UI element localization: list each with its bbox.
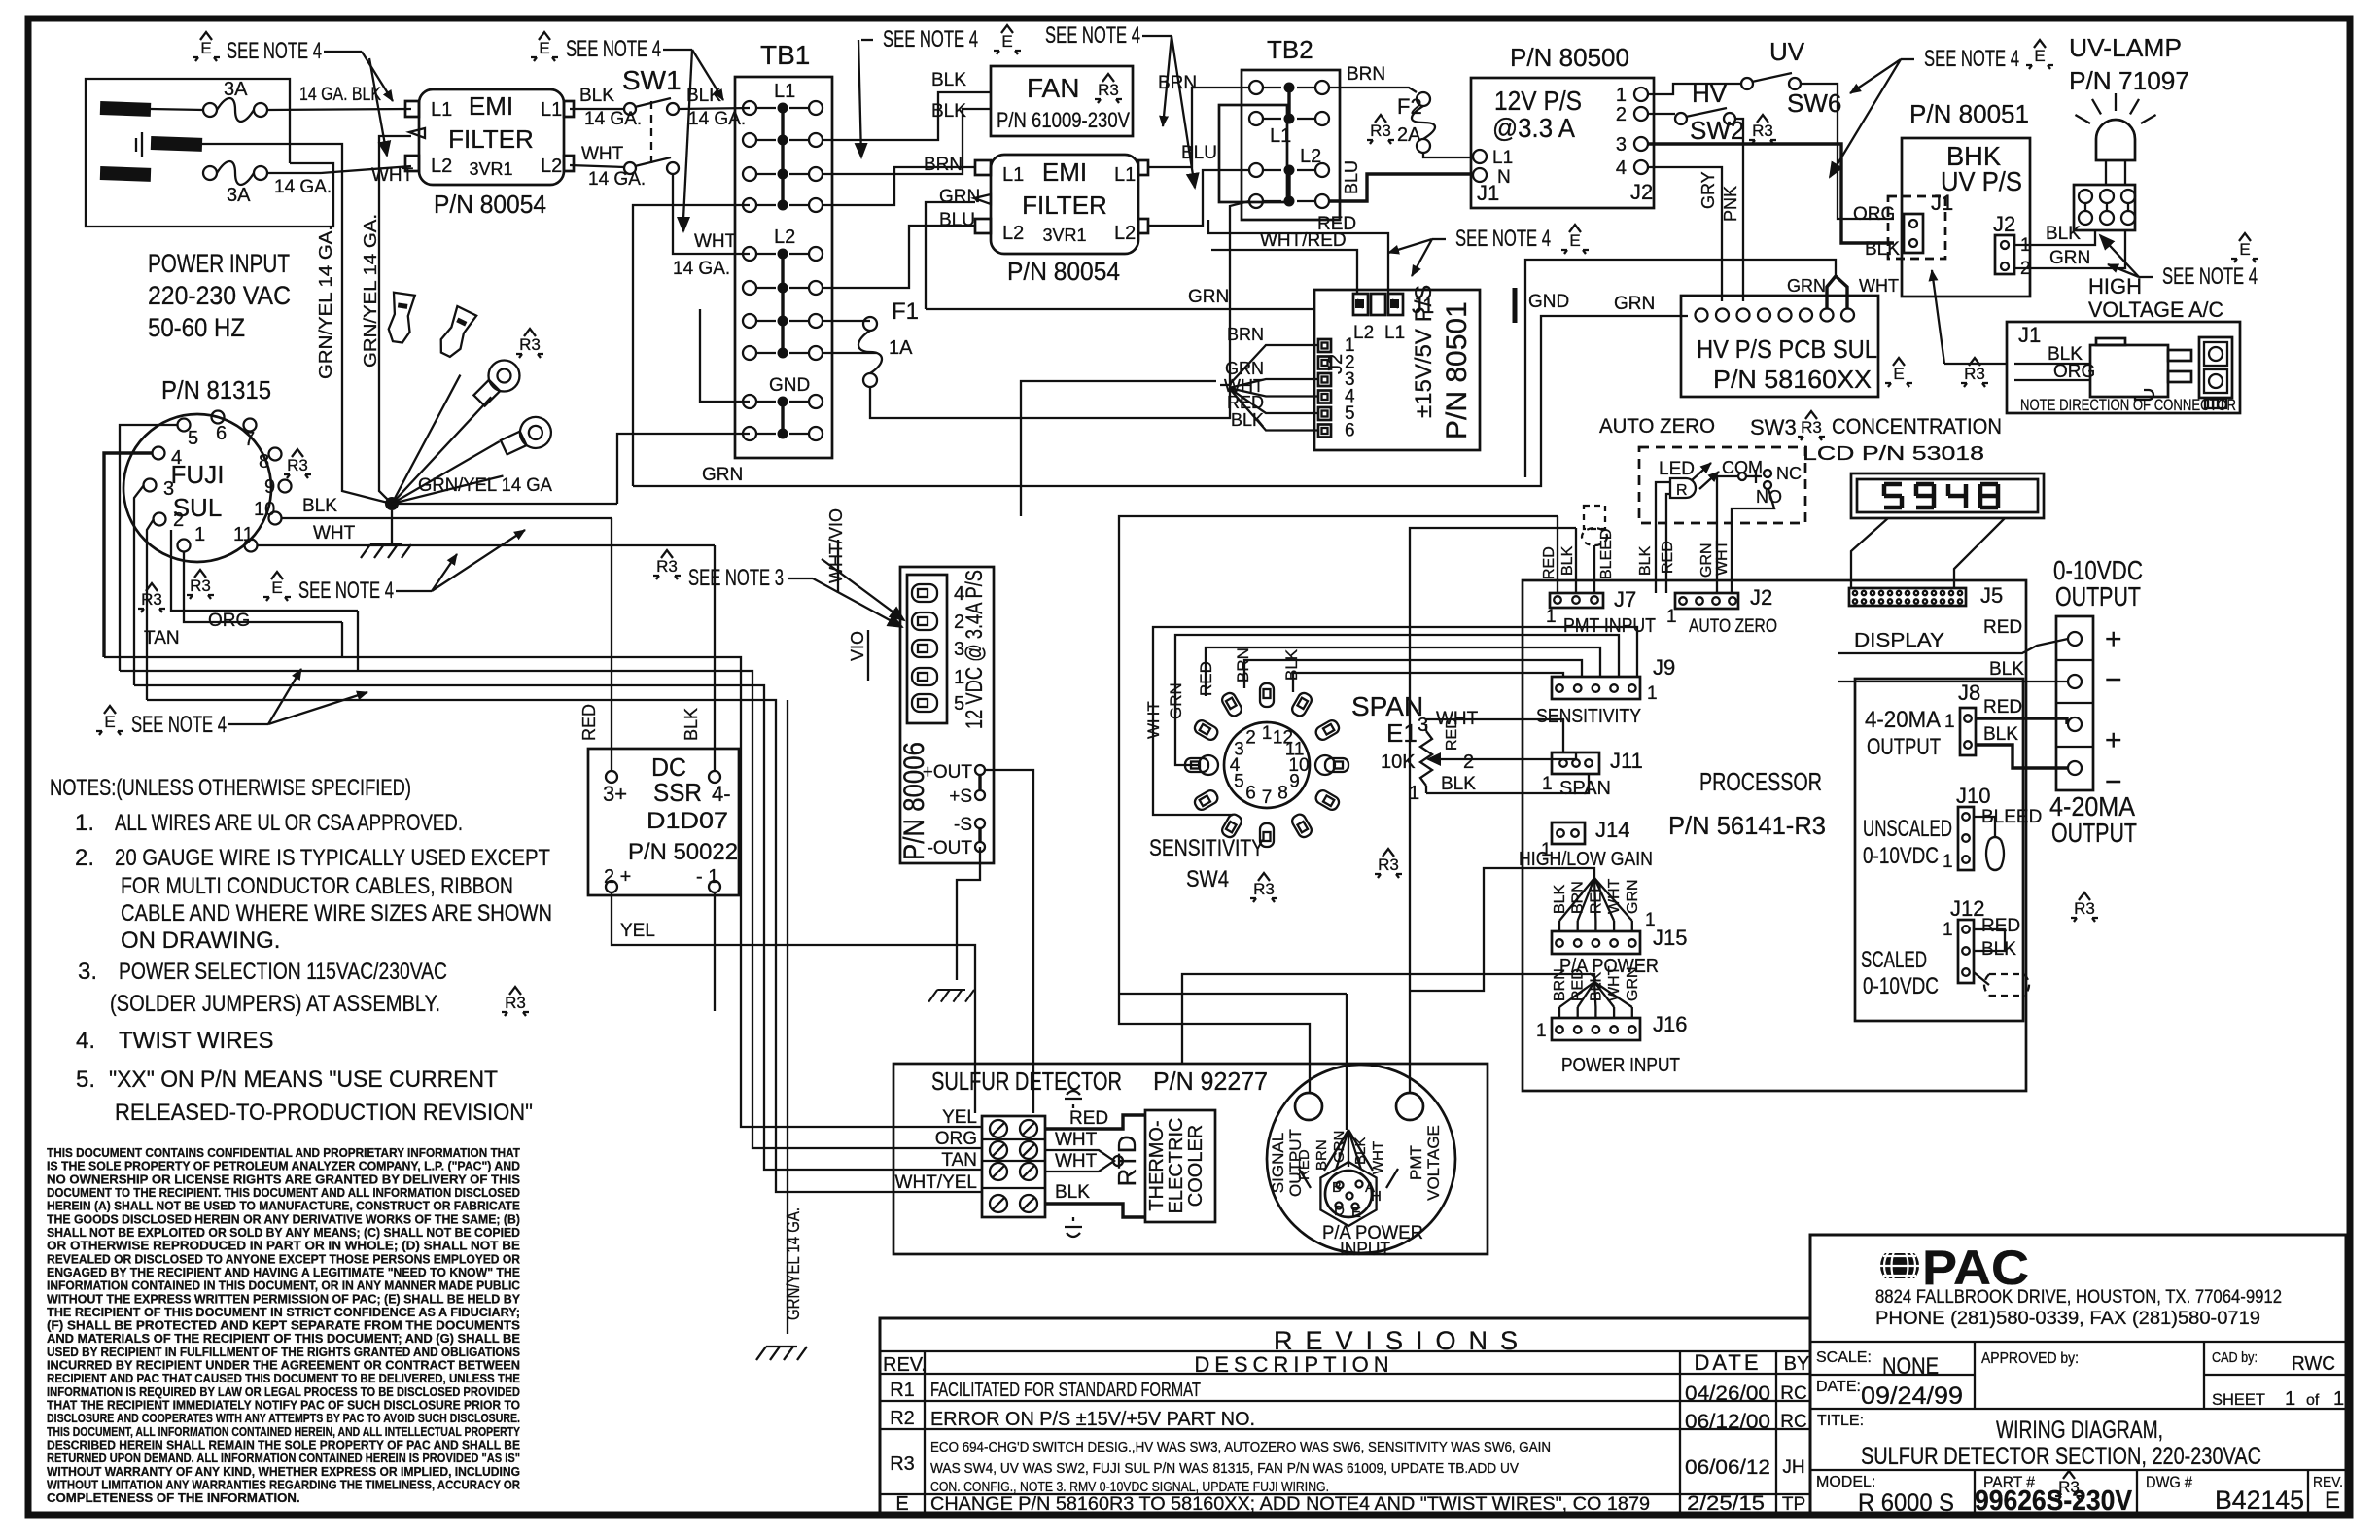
svg-text:E: E (200, 39, 211, 57)
svg-text:14 GA.: 14 GA. (584, 109, 642, 129)
svg-text:WIRING DIAGRAM,: WIRING DIAGRAM, (1996, 1417, 2163, 1444)
svg-text:SEE NOTE 4: SEE NOTE 4 (227, 38, 322, 64)
svg-text:6: 6 (1245, 784, 1256, 804)
svg-text:J2: J2 (1750, 585, 1772, 610)
svg-text:12 VDC @ 3.4A P/S: 12 VDC @ 3.4A P/S (962, 570, 988, 729)
svg-text:+: + (2105, 623, 2122, 655)
svg-text:GRN: GRN (1167, 682, 1185, 719)
svg-text:J1: J1 (1931, 191, 1953, 215)
svg-text:−: − (2105, 664, 2122, 696)
svg-text:FILTER: FILTER (448, 124, 534, 154)
svg-text:P/N 58160XX: P/N 58160XX (1713, 365, 1872, 394)
svg-text:J15: J15 (1653, 926, 1687, 950)
svg-text:7: 7 (244, 429, 255, 450)
svg-text:-S: -S (954, 815, 972, 835)
svg-text:L2: L2 (431, 156, 452, 177)
svg-text:J14: J14 (1595, 818, 1629, 842)
svg-text:TWIST WIRES: TWIST WIRES (119, 1028, 274, 1054)
svg-text:WHT/VIO: WHT/VIO (826, 508, 846, 583)
svg-text:EMI: EMI (469, 91, 513, 121)
svg-text:COMPLETENESS OF THE INFORMATIO: COMPLETENESS OF THE INFORMATION. (47, 1490, 300, 1505)
svg-text:RED: RED (1541, 546, 1557, 579)
svg-text:12V P/S: 12V P/S (1494, 86, 1582, 116)
svg-text:4.: 4. (76, 1028, 95, 1054)
svg-text:WHT: WHT (1055, 1151, 1098, 1172)
svg-text:FACILITATED FOR STANDARD FORMA: FACILITATED FOR STANDARD FORMAT (930, 1380, 1201, 1401)
svg-text:±15V/5V P/S: ±15V/5V P/S (1411, 285, 1437, 418)
svg-text:09/24/99: 09/24/99 (1861, 1382, 1963, 1410)
svg-text:SENSITIVITY: SENSITIVITY (1536, 706, 1641, 727)
svg-text:BLK: BLK (1231, 410, 1264, 430)
svg-text:GND: GND (1528, 292, 1569, 312)
svg-text:BLK: BLK (686, 86, 721, 106)
svg-text:11: 11 (233, 524, 254, 545)
svg-text:R 6000 S: R 6000 S (1858, 1489, 1954, 1517)
svg-text:UNSCALED: UNSCALED (1863, 816, 1952, 842)
svg-text:SEE NOTE 4: SEE NOTE 4 (1924, 46, 2019, 72)
svg-text:B42145: B42145 (2215, 1486, 2304, 1515)
svg-text:CONCENTRATION: CONCENTRATION (1832, 414, 2002, 438)
svg-text:J11: J11 (1610, 749, 1643, 773)
svg-text:1: 1 (194, 524, 205, 545)
svg-text:WHT: WHT (1370, 1141, 1386, 1174)
svg-text:+: + (2105, 724, 2122, 756)
svg-text:SEE NOTE 4: SEE NOTE 4 (566, 36, 661, 62)
svg-text:99626S-230V: 99626S-230V (1975, 1486, 2133, 1517)
svg-text:SW2: SW2 (1690, 116, 1744, 145)
svg-text:LCD P/N 53018: LCD P/N 53018 (1802, 443, 1984, 465)
svg-text:BLK: BLK (1989, 659, 2024, 680)
svg-text:3.: 3. (78, 959, 97, 985)
svg-text:PROCESSOR: PROCESSOR (1699, 767, 1822, 796)
svg-text:WHT: WHT (694, 231, 737, 252)
svg-text:220-230 VAC: 220-230 VAC (148, 281, 291, 310)
svg-text:P/N 61009-230V: P/N 61009-230V (997, 108, 1130, 132)
svg-text:1: 1 (1942, 852, 1953, 872)
svg-text:FUJI: FUJI (171, 460, 225, 489)
svg-text:REV.: REV. (883, 1354, 927, 1376)
svg-text:GRN: GRN (1331, 1131, 1347, 1163)
svg-text:RED: RED (1296, 1149, 1312, 1180)
svg-text:PNK: PNK (1721, 186, 1740, 222)
svg-text:OUTPUT: OUTPUT (2055, 581, 2141, 612)
svg-text:BLK: BLK (2046, 224, 2081, 244)
svg-text:OUTPUT: OUTPUT (1867, 734, 1941, 760)
svg-text:J10: J10 (1956, 784, 1990, 808)
svg-text:BLK: BLK (1441, 774, 1476, 794)
svg-text:50-60 HZ: 50-60 HZ (148, 313, 245, 342)
svg-text:INPUT: INPUT (1340, 1240, 1390, 1260)
svg-text:12: 12 (1273, 727, 1293, 748)
svg-text:HV: HV (1692, 79, 1728, 108)
svg-text:DISPLAY: DISPLAY (1854, 630, 1944, 651)
svg-text:TB2: TB2 (1267, 35, 1313, 64)
svg-text:R3: R3 (1801, 418, 1822, 437)
svg-text:CAD by:: CAD by: (2212, 1349, 2257, 1366)
svg-text:RC: RC (1780, 1412, 1806, 1432)
svg-text:ECO 694-CHG'D SWITCH DESIG.,HV: ECO 694-CHG'D SWITCH DESIG.,HV WAS SW3, … (930, 1439, 1551, 1455)
svg-text:R3: R3 (1370, 122, 1391, 140)
svg-text:YEL: YEL (620, 921, 655, 941)
svg-text:JH: JH (1782, 1457, 1804, 1478)
svg-text:P/N 80054: P/N 80054 (434, 190, 546, 219)
svg-text:SEE NOTE 3: SEE NOTE 3 (688, 565, 784, 591)
svg-text:R3: R3 (287, 456, 308, 474)
svg-text:"XX" ON P/N MEANS "USE CURRENT: "XX" ON P/N MEANS "USE CURRENT (109, 1067, 498, 1093)
svg-text:BLK: BLK (1282, 648, 1301, 681)
svg-text:SW3: SW3 (1750, 415, 1797, 439)
svg-text:4-: 4- (712, 782, 731, 806)
svg-text:SCALED: SCALED (1861, 947, 1927, 973)
svg-text:1.: 1. (75, 810, 94, 836)
svg-text:SW1: SW1 (622, 65, 682, 95)
svg-text:GRN: GRN (702, 465, 743, 485)
svg-text:BLK: BLK (1865, 239, 1900, 260)
svg-text:10K: 10K (1381, 752, 1416, 773)
svg-text:BLU: BLU (1181, 143, 1217, 163)
svg-text:GRY: GRY (1698, 171, 1718, 209)
svg-text:SEE NOTE 4: SEE NOTE 4 (131, 712, 227, 738)
svg-text:1: 1 (1542, 774, 1553, 794)
svg-text:NC: NC (1776, 464, 1802, 483)
svg-text:3A: 3A (224, 79, 248, 100)
svg-text:SPAN: SPAN (1351, 691, 1423, 721)
svg-text:P/N 80500: P/N 80500 (1510, 43, 1629, 72)
svg-text:GRN: GRN (1625, 879, 1641, 914)
svg-text:2/25/15: 2/25/15 (1687, 1492, 1765, 1515)
svg-text:7: 7 (1262, 787, 1273, 808)
svg-text:LED: LED (1659, 459, 1695, 479)
svg-text:SSR: SSR (653, 778, 702, 807)
svg-text:SIGNAL: SIGNAL (1269, 1133, 1287, 1193)
svg-text:L2: L2 (1114, 223, 1136, 244)
svg-text:YEL: YEL (942, 1107, 977, 1128)
svg-text:F2: F2 (1397, 94, 1422, 119)
svg-text:FILTER: FILTER (1022, 191, 1107, 220)
svg-text:CABLE AND WHERE WIRE SIZES ARE: CABLE AND WHERE WIRE SIZES ARE SHOWN (121, 900, 552, 927)
svg-text:E: E (2239, 240, 2250, 259)
svg-text:L2: L2 (1002, 223, 1024, 244)
svg-text:E: E (1001, 32, 1012, 51)
svg-text:E: E (1569, 231, 1580, 250)
svg-text:E: E (1893, 365, 1904, 383)
svg-text:WHT: WHT (313, 523, 356, 543)
svg-text:RTD: RTD (1112, 1136, 1141, 1187)
svg-text:PMT: PMT (1407, 1145, 1425, 1180)
svg-text:14 GA.: 14 GA. (688, 109, 746, 129)
svg-text:J16: J16 (1653, 1012, 1687, 1036)
svg-text:PHONE (281)580-0339, FAX: PHONE (281)580-0339, FAX (281)580-0719 (1875, 1309, 2260, 1329)
svg-text:J9: J9 (1653, 655, 1675, 680)
svg-text:SUL: SUL (173, 493, 223, 522)
svg-text:10: 10 (254, 499, 275, 520)
svg-text:RED: RED (1660, 541, 1676, 574)
svg-text:J2: J2 (1630, 180, 1653, 204)
svg-text:DESCRIPTION: DESCRIPTION (1194, 1352, 1393, 1377)
svg-text:BLK: BLK (1559, 545, 1576, 576)
svg-text:WAS SW4, UV WAS SW2, FUJI SUL: WAS SW4, UV WAS SW2, FUJI SUL P/N WAS 81… (930, 1460, 1519, 1477)
svg-text:REVISIONS: REVISIONS (1274, 1326, 1530, 1355)
svg-text:+OUT: +OUT (923, 762, 973, 783)
svg-text:L2: L2 (1353, 323, 1374, 343)
svg-text:J1: J1 (1477, 181, 1499, 205)
svg-text:R3: R3 (1098, 81, 1119, 99)
svg-text:RED: RED (1227, 393, 1264, 412)
svg-text:TP: TP (1782, 1494, 1805, 1515)
svg-text:14 GA.: 14 GA. (274, 177, 332, 197)
svg-text:R3: R3 (190, 577, 211, 595)
svg-text:SENSITIVITY: SENSITIVITY (1149, 835, 1264, 861)
svg-text:R3: R3 (1253, 880, 1275, 898)
svg-text:HV P/S PCB SUL: HV P/S PCB SUL (1697, 334, 1877, 364)
svg-text:OUTPUT: OUTPUT (2051, 818, 2137, 848)
svg-text:THERMO-: THERMO- (1146, 1120, 1168, 1210)
svg-text:GRN/YEL 14 GA.: GRN/YEL 14 GA. (316, 226, 335, 379)
svg-text:B: B (1332, 1179, 1342, 1196)
svg-text:06/06/12: 06/06/12 (1685, 1456, 1770, 1479)
svg-text:NOTES:(UNLESS OTHERWISE SPECIF: NOTES:(UNLESS OTHERWISE SPECIFIED) (50, 775, 411, 801)
svg-text:SEE NOTE 4: SEE NOTE 4 (1045, 22, 1140, 49)
svg-text:BLU: BLU (939, 210, 975, 230)
svg-text:BLK: BLK (1981, 939, 2016, 960)
svg-text:R2: R2 (890, 1408, 915, 1429)
svg-text:L1: L1 (1492, 148, 1513, 168)
svg-text:BLU: BLU (1342, 160, 1361, 194)
svg-text:J5: J5 (1980, 583, 2003, 608)
svg-text:RELEASED-TO-PRODUCTION REVISIO: RELEASED-TO-PRODUCTION REVISION" (115, 1100, 533, 1126)
svg-text:P/N 56141-R3: P/N 56141-R3 (1668, 811, 1826, 840)
svg-text:R3: R3 (1752, 122, 1773, 140)
svg-text:AUTO ZERO: AUTO ZERO (1689, 616, 1777, 637)
svg-text:TAN: TAN (144, 628, 180, 648)
svg-text:R3: R3 (505, 994, 526, 1012)
svg-text:UV: UV (1769, 37, 1805, 66)
svg-text:E: E (2325, 1487, 2340, 1514)
svg-text:VOLTAGE A/C: VOLTAGE A/C (2088, 297, 2223, 322)
svg-text:5: 5 (1234, 772, 1244, 792)
svg-text:L1: L1 (1002, 164, 1024, 186)
svg-text:14 GA.: 14 GA. (673, 259, 730, 279)
svg-text:1A: 1A (889, 337, 913, 359)
svg-text:RED: RED (1983, 697, 2022, 717)
svg-text:POWER SELECTION 115VAC/230VAC: POWER SELECTION 115VAC/230VAC (119, 959, 447, 985)
svg-text:D1D07: D1D07 (647, 808, 728, 834)
svg-text:4-20MA: 4-20MA (1865, 707, 1941, 733)
svg-text:4: 4 (1616, 157, 1627, 179)
svg-text:ON DRAWING.: ON DRAWING. (121, 927, 280, 954)
svg-text:GRN/YEL 14 GA.: GRN/YEL 14 GA. (361, 214, 380, 367)
svg-text:06/12/00: 06/12/00 (1685, 1411, 1770, 1433)
svg-text:2A: 2A (1397, 124, 1421, 146)
svg-text:R3: R3 (1378, 856, 1399, 874)
svg-text:DWG #: DWG # (2146, 1473, 2192, 1491)
svg-text:WHT: WHT (371, 165, 414, 186)
svg-text:J12: J12 (1950, 896, 1984, 921)
svg-text:DATE:: DATE: (1816, 1379, 1861, 1395)
svg-text:L1: L1 (774, 81, 795, 102)
svg-text:DATE: DATE (1694, 1350, 1761, 1375)
svg-text:GRN/YEL 14 GA.: GRN/YEL 14 GA. (784, 1207, 803, 1320)
svg-text:P/N 80006: P/N 80006 (898, 742, 930, 860)
svg-text:WHT: WHT (1714, 540, 1731, 576)
svg-text:BLK: BLK (1055, 1182, 1090, 1203)
svg-text:SULFUR DETECTOR: SULFUR DETECTOR (931, 1067, 1122, 1096)
svg-text:RED: RED (579, 704, 599, 741)
svg-text:ALL WIRES ARE UL OR CSA APPROV: ALL WIRES ARE UL OR CSA APPROVED. (115, 810, 463, 836)
svg-text:1: 1 (1546, 607, 1557, 627)
svg-text:GRN/YEL 14 GA: GRN/YEL 14 GA (418, 475, 552, 496)
svg-text:F1: F1 (892, 298, 919, 325)
svg-text:APPROVED by:: APPROVED by: (1981, 1350, 2079, 1367)
svg-text:2.: 2. (75, 845, 94, 871)
svg-text:BLK: BLK (1552, 884, 1568, 914)
svg-text:P/N 71097: P/N 71097 (2069, 66, 2189, 95)
svg-text:HIGH: HIGH (2088, 274, 2142, 298)
svg-text:WHT/YEL: WHT/YEL (895, 1172, 977, 1193)
svg-text:+S: +S (949, 787, 972, 807)
svg-text:BLK: BLK (1352, 1137, 1369, 1165)
svg-text:of: of (2306, 1392, 2320, 1409)
svg-text:5: 5 (188, 428, 198, 449)
svg-text:SULFUR DETECTOR SECTION, 22: SULFUR DETECTOR SECTION, 220-230VAC (1861, 1443, 2261, 1470)
svg-text:SEE NOTE 4: SEE NOTE 4 (883, 26, 978, 52)
svg-text:0-10VDC: 0-10VDC (1863, 973, 1939, 999)
svg-text:L1: L1 (1384, 323, 1405, 343)
svg-text:CON. CONFIG., NOTE 3. RMV 0-1: CON. CONFIG., NOTE 3. RMV 0-10VDC SIGNAL… (930, 1479, 1329, 1495)
svg-text:04/26/00: 04/26/00 (1685, 1382, 1770, 1405)
svg-text:RC: RC (1780, 1383, 1806, 1404)
svg-text:- 1: - 1 (696, 866, 718, 888)
svg-text:3+: 3+ (603, 782, 627, 806)
svg-text:WHT: WHT (1859, 276, 1899, 296)
svg-text:1: 1 (2285, 1388, 2295, 1410)
svg-text:3VR1: 3VR1 (1042, 226, 1086, 245)
svg-text:RED: RED (1069, 1108, 1108, 1129)
svg-text:GRN: GRN (2049, 248, 2090, 268)
svg-text:0-10VDC: 0-10VDC (1863, 843, 1939, 869)
svg-text:L1: L1 (431, 99, 452, 121)
svg-text:1: 1 (1536, 1021, 1547, 1041)
svg-text:MODEL:: MODEL: (1816, 1474, 1875, 1490)
svg-text:L2: L2 (1300, 146, 1321, 167)
svg-text:GRN: GRN (939, 187, 980, 207)
svg-text:BLK: BLK (1637, 545, 1654, 576)
svg-text:WHT/RED: WHT/RED (1260, 230, 1347, 251)
svg-text:SEE NOTE 4: SEE NOTE 4 (1455, 226, 1551, 252)
svg-text:ORG: ORG (935, 1129, 977, 1149)
svg-text:1: 1 (1944, 712, 1955, 732)
svg-text:20 GAUGE WIRE IS TYPICALLY USE: 20 GAUGE WIRE IS TYPICALLY USED EXCEPT (115, 845, 550, 871)
svg-text:P/N 50022: P/N 50022 (628, 839, 738, 865)
svg-text:RED: RED (1981, 916, 2020, 936)
svg-text:1: 1 (2333, 1388, 2344, 1410)
svg-text:TAN: TAN (941, 1150, 977, 1171)
svg-text:E: E (271, 578, 282, 597)
svg-text:WHT: WHT (581, 144, 624, 164)
svg-text:3: 3 (1616, 134, 1627, 156)
svg-text:R3: R3 (656, 557, 678, 576)
svg-text:BRN: BRN (1158, 73, 1197, 93)
svg-text:HIGH/LOW GAIN: HIGH/LOW GAIN (1519, 849, 1653, 870)
svg-text:BLK: BLK (682, 708, 701, 741)
svg-text:8: 8 (259, 451, 269, 472)
svg-text:L1: L1 (541, 99, 562, 121)
svg-text:SCALE:: SCALE: (1816, 1349, 1872, 1366)
svg-text:SEE NOTE 4: SEE NOTE 4 (298, 577, 394, 604)
svg-text:SW4: SW4 (1186, 866, 1229, 892)
svg-text:BLK: BLK (931, 70, 966, 90)
svg-text:SEE NOTE 4: SEE NOTE 4 (2162, 263, 2257, 290)
svg-text:GND: GND (769, 375, 810, 396)
svg-text:BRN: BRN (1313, 1139, 1330, 1171)
svg-text:SW6: SW6 (1787, 88, 1841, 118)
svg-text:D: D (1334, 1203, 1345, 1219)
svg-text:8824 FALLBROOK DRIVE, HOU: 8824 FALLBROOK DRIVE, HOUSTON, TX. 77064… (1875, 1287, 2282, 1308)
svg-text:L1: L1 (1114, 164, 1136, 186)
svg-text:9: 9 (264, 476, 275, 498)
svg-text:TITLE:: TITLE: (1817, 1413, 1864, 1429)
svg-text:1: 1 (1647, 683, 1658, 704)
svg-text:5.: 5. (76, 1067, 95, 1093)
svg-text:RED: RED (1983, 617, 2022, 638)
svg-text:E: E (539, 39, 549, 57)
svg-text:GRN: GRN (1225, 359, 1264, 378)
svg-text:RED: RED (1444, 717, 1460, 751)
svg-text:R3: R3 (519, 335, 541, 354)
svg-text:FOR MULTI CONDUCTOR CABLES, RI: FOR MULTI CONDUCTOR CABLES, RIBBON (121, 873, 513, 899)
svg-text:R3: R3 (2074, 899, 2095, 918)
svg-text:BRN: BRN (1234, 647, 1252, 682)
svg-text:2: 2 (1616, 104, 1627, 125)
svg-text:2: 2 (1245, 727, 1256, 748)
svg-text:R3: R3 (141, 590, 162, 609)
svg-text:P/N 80501: P/N 80501 (1441, 301, 1473, 439)
svg-text:CHANGE P/N 58160R3 TO 58160XX;: CHANGE P/N 58160R3 TO 58160XX; ADD NOTE4… (930, 1494, 1650, 1515)
svg-text:GRN: GRN (1188, 287, 1229, 307)
svg-text:ELECTRIC: ELECTRIC (1166, 1118, 1187, 1214)
svg-text:SPAN: SPAN (1559, 778, 1611, 799)
svg-text:E: E (104, 713, 115, 731)
svg-text:2: 2 (1463, 752, 1474, 773)
svg-text:EMI: EMI (1042, 157, 1087, 187)
svg-text:RWC: RWC (2292, 1353, 2335, 1375)
svg-text:NOTE DIRECTION OF CONNECTOR: NOTE DIRECTION OF CONNECTOR (2020, 396, 2236, 414)
svg-text:ERROR ON P/S ±15V/+5V PART NO.: ERROR ON P/S ±15V/+5V PART NO. (930, 1409, 1255, 1430)
svg-text:14 GA. BLK: 14 GA. BLK (299, 85, 381, 105)
svg-text:VIO: VIO (848, 631, 867, 661)
svg-text:TB1: TB1 (760, 40, 810, 70)
svg-text:J2: J2 (1993, 212, 2015, 236)
svg-text:WHT: WHT (1055, 1130, 1098, 1150)
svg-text:J7: J7 (1614, 587, 1636, 612)
svg-text:BY: BY (1784, 1353, 1810, 1375)
svg-text:AUTO ZERO: AUTO ZERO (1599, 415, 1715, 437)
svg-text:P/N 81315: P/N 81315 (161, 375, 271, 404)
svg-text:E: E (2034, 47, 2045, 65)
svg-text:GRN: GRN (1787, 276, 1826, 296)
svg-text:@3.3 A: @3.3 A (1492, 113, 1575, 143)
svg-text:3A: 3A (227, 185, 251, 206)
svg-text:J1: J1 (2018, 323, 2041, 347)
svg-text:6: 6 (1345, 421, 1355, 441)
svg-text:1: 1 (1616, 85, 1627, 106)
svg-text:SHEET: SHEET (2212, 1390, 2265, 1409)
svg-text:J8: J8 (1958, 681, 1980, 705)
svg-text:L2: L2 (774, 227, 795, 248)
svg-text:(SOLDER JUMPERS) AT ASSEMBLY.: (SOLDER JUMPERS) AT ASSEMBLY. (110, 991, 440, 1017)
svg-text:BLK: BLK (302, 496, 337, 516)
svg-text:R3: R3 (890, 1453, 915, 1475)
